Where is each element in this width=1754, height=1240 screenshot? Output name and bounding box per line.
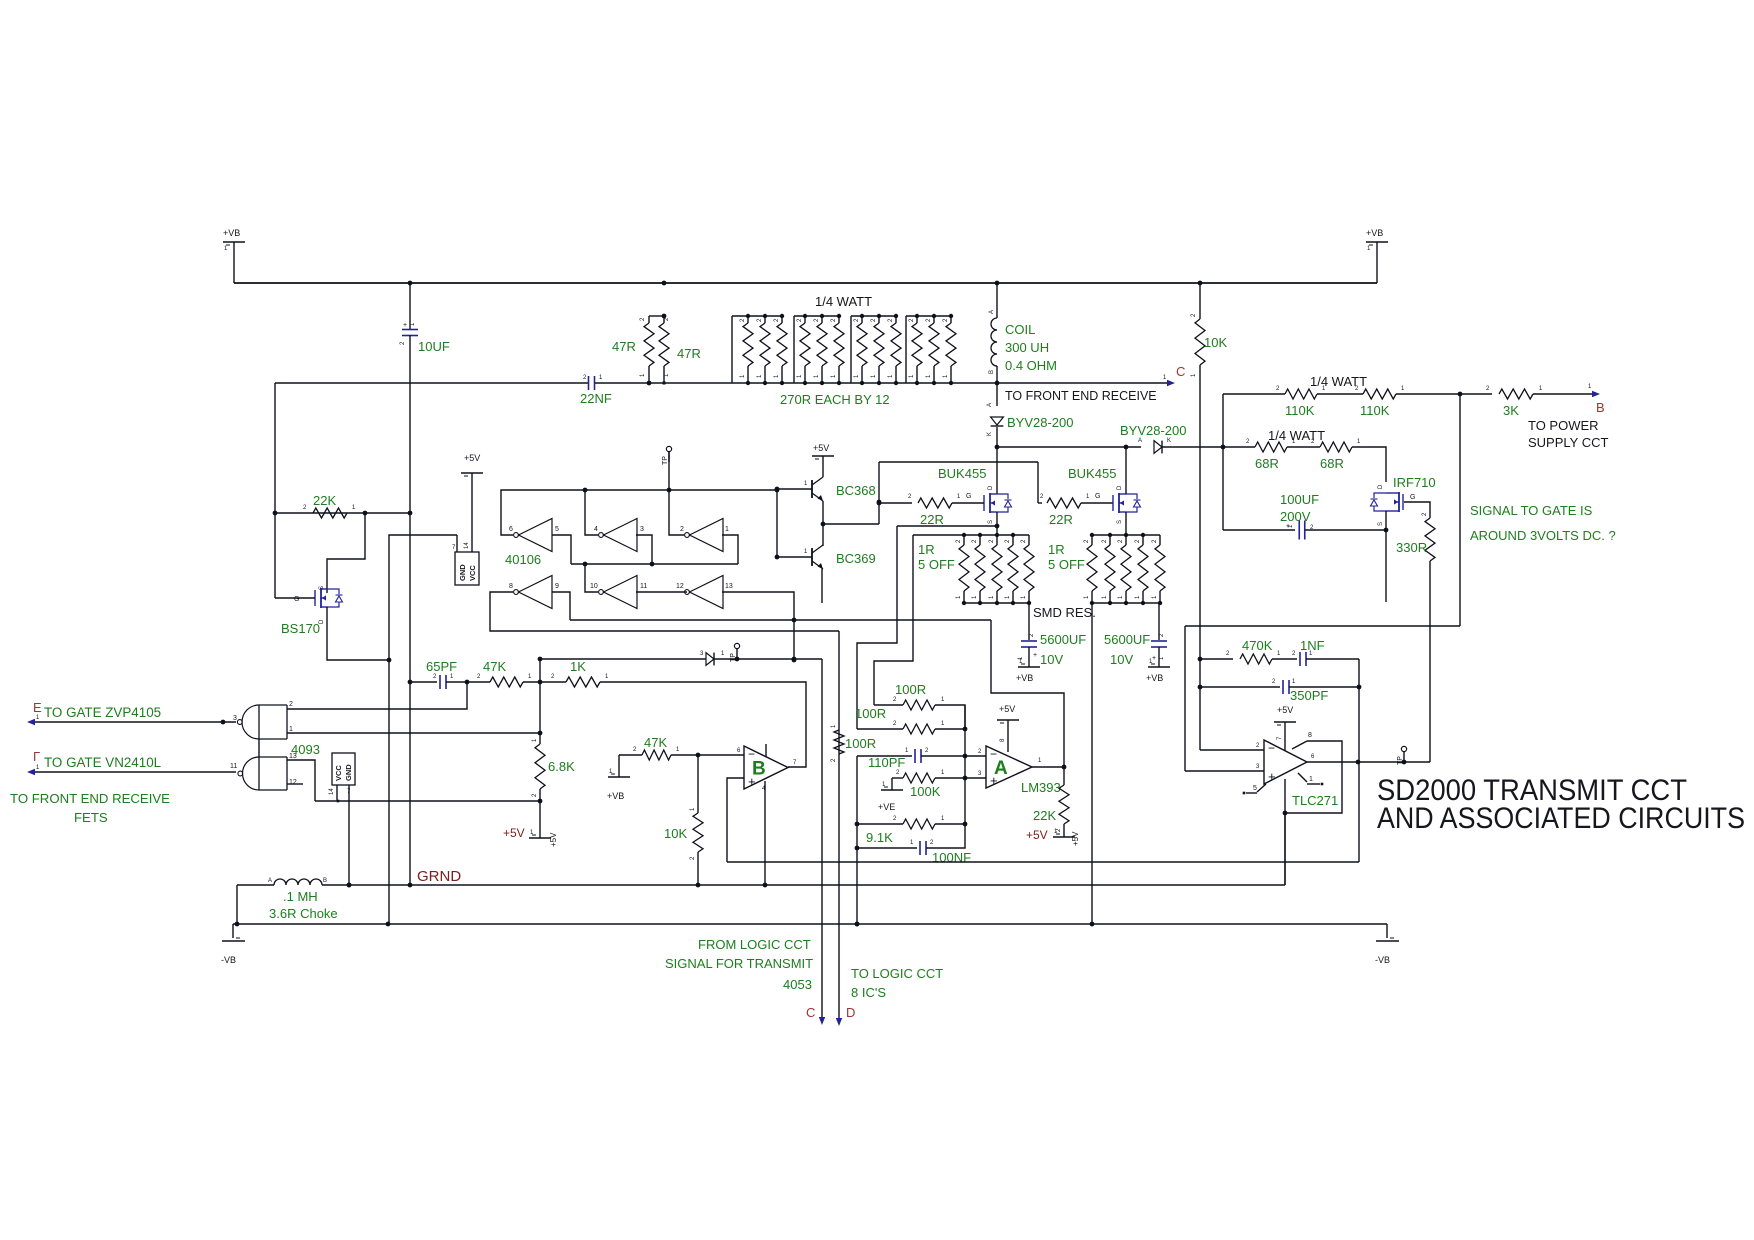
wire BUK455#1 source to bank <box>996 512 998 535</box>
svg-text:100R: 100R <box>855 706 886 721</box>
wire diode line y659 right <box>714 657 822 662</box>
junction dots on 10K line <box>1198 657 1203 690</box>
label COIL 300 UH 0.4 OHM <box>1005 322 1057 373</box>
wire bank2 col1 down to -VB rail <box>1091 603 1093 924</box>
wire bank1-top to 100R#1 <box>874 535 913 705</box>
resistor R 47R #1 <box>640 316 654 383</box>
wire to 47K#2 <box>619 747 642 755</box>
wire 22R#2 to gate <box>1081 502 1113 504</box>
resistor 270R #11 <box>926 314 939 385</box>
wire inv8 output to line D <box>490 592 839 631</box>
label +5V rotated (6.8K) <box>549 832 558 847</box>
svg-text:TO FRONT END RECEIVE: TO FRONT END RECEIVE <box>10 791 170 806</box>
svg-text:1K: 1K <box>570 659 586 674</box>
wire to 65PF <box>410 674 437 682</box>
inverter 40106 6-5 <box>514 519 552 552</box>
capacitor 5600UF #1 <box>1018 603 1037 660</box>
svg-text:IRF710: IRF710 <box>1393 475 1436 490</box>
resistor 330R <box>1425 518 1435 561</box>
svg-text:10K: 10K <box>664 826 687 841</box>
wire 1R bank1 bottom bus <box>964 602 1029 604</box>
resistor 270R #12 <box>943 314 956 385</box>
label BUK455 #2 <box>1068 466 1116 481</box>
label 1R 5 OFF #1 <box>918 542 955 572</box>
svg-text:5 OFF: 5 OFF <box>1048 557 1085 572</box>
label 330R <box>1396 540 1427 555</box>
label 1/4 WATT (110K) <box>1310 374 1367 389</box>
svg-text:5: 5 <box>555 526 559 533</box>
op-amp U TLC271 <box>1264 740 1307 784</box>
resistor 1R bank2 #5 <box>1152 535 1165 605</box>
wire gate-drive horizontal y462 <box>879 461 1038 463</box>
wire node540 vertical <box>538 657 543 736</box>
svg-text:22R: 22R <box>1049 512 1073 527</box>
svg-text:+VE: +VE <box>878 802 895 812</box>
wire 22R#1 left <box>877 494 912 505</box>
resistor 100R (vertical on D line) <box>831 724 844 762</box>
svg-text:LM393: LM393 <box>1021 780 1061 795</box>
resistor 1R bank2 #4 <box>1135 535 1148 605</box>
svg-text:+: + <box>403 322 407 329</box>
svg-text:+: + <box>1152 655 1156 662</box>
power +VE <box>878 778 903 812</box>
label +5V maroon (22K) <box>1026 828 1048 842</box>
resistor 47K #1 <box>490 674 532 687</box>
svg-text:22R: 22R <box>920 512 944 527</box>
net D bottom <box>846 1005 855 1020</box>
label 1/4 WATT (270R bank) <box>815 294 872 309</box>
svg-text:1: 1 <box>1309 776 1313 783</box>
svg-text:A: A <box>1138 438 1142 444</box>
inductor .1MH choke <box>237 878 327 885</box>
pins 2 1 <box>680 526 729 533</box>
svg-text:S: S <box>1378 522 1384 526</box>
wire BC369 emitter stub <box>821 569 823 603</box>
wire 3K to net B arrow <box>1533 384 1600 397</box>
junction dots y490 <box>583 488 780 493</box>
label BYV28-200 #2 <box>1120 423 1187 438</box>
wire diode2 line to BUK455#2 drain <box>1125 447 1127 494</box>
wire 100R#1 left <box>874 697 903 705</box>
wire 100R#2 left <box>857 721 903 729</box>
svg-text:G: G <box>1410 494 1415 501</box>
label TO FRONT END RECEIVE <box>1005 389 1157 403</box>
resistor 47K #2 <box>642 747 680 760</box>
pins 10 11 <box>590 583 647 590</box>
wire 22NF to 270R bank <box>595 382 732 384</box>
svg-text:1R: 1R <box>1048 542 1065 557</box>
wire inv9 input drop <box>552 592 570 620</box>
wire diode1 to BUK455 drain <box>995 427 1000 494</box>
svg-text:-VB: -VB <box>1375 955 1390 965</box>
svg-text:FETS: FETS <box>74 810 108 825</box>
wire TLC271 pin8 wrap <box>1285 732 1342 813</box>
label 1K <box>570 659 586 674</box>
wire 22R#1 to gate <box>952 502 984 504</box>
svg-text:5: 5 <box>1253 785 1257 792</box>
resistor 1R bank1 #2 <box>972 535 985 605</box>
svg-text:110PF: 110PF <box>868 755 905 770</box>
svg-text:SIGNAL FOR TRANSMIT: SIGNAL FOR TRANSMIT <box>665 956 813 971</box>
label BUK455 #1 <box>938 466 986 481</box>
resistor 10K (op-amp B) <box>690 755 703 885</box>
op-amp B pins <box>762 760 797 792</box>
inverter 40106 12-13 <box>685 576 723 609</box>
resistor 470K <box>1240 651 1281 664</box>
wire node to 3K <box>1460 386 1492 394</box>
svg-text:G: G <box>294 596 299 603</box>
label +5V maroon (6.8K) <box>503 826 525 840</box>
svg-text:3.6R Choke: 3.6R Choke <box>269 906 338 921</box>
wire 270R group 3 top bus <box>851 315 896 317</box>
wire LM393 output <box>1032 758 1066 769</box>
svg-text:68R: 68R <box>1320 456 1344 471</box>
svg-text:D: D <box>1378 484 1384 489</box>
label LM393 <box>1021 780 1061 795</box>
svg-text:COIL: COIL <box>1005 322 1035 337</box>
svg-text:14: 14 <box>329 788 335 795</box>
resistor 1K <box>566 674 609 687</box>
wire TLC271 pin3 <box>1185 764 1264 771</box>
nand B pins <box>230 753 297 786</box>
svg-text:100R: 100R <box>845 736 876 751</box>
title SD2000 TRANSMIT CCT <box>1377 774 1745 835</box>
resistor 270R #9 <box>888 314 901 385</box>
svg-text:+: + <box>1268 769 1276 784</box>
svg-text:22K: 22K <box>313 493 336 508</box>
resistor 9.1K <box>903 816 945 829</box>
resistor 100K <box>903 770 945 783</box>
label 10UF <box>418 339 450 354</box>
wire 110PF to pin2 <box>921 749 986 758</box>
label 1NF <box>1300 638 1325 653</box>
svg-text:3: 3 <box>640 526 644 533</box>
wire 270R group 4 top bus <box>906 315 953 317</box>
svg-text:+VB: +VB <box>1366 228 1383 238</box>
svg-text:S: S <box>988 520 994 524</box>
label 47K #1 <box>483 659 506 674</box>
label 100UF 200V <box>1280 492 1319 524</box>
svg-text:TO POWER: TO POWER <box>1528 418 1599 433</box>
svg-text:+: + <box>1033 652 1037 659</box>
svg-text:4093: 4093 <box>291 742 320 757</box>
power +VB (47K) <box>607 755 630 801</box>
label 5600UF 10V #1 <box>1040 632 1086 667</box>
resistor 22K <box>313 508 347 518</box>
wire line A y620 <box>570 618 991 623</box>
wire BS170 gate <box>275 597 315 599</box>
label 68R #1 <box>1255 456 1279 471</box>
label 4093 <box>291 742 320 757</box>
wire TLC271 pin1 stub <box>1298 773 1323 785</box>
wire BC368 emitter to node <box>821 501 826 526</box>
wire inv6 output to y490 net <box>501 490 777 535</box>
wire 4093 pin14 drop <box>336 785 338 801</box>
wire op-amp B pin5 drop <box>727 778 744 862</box>
svg-text:A: A <box>268 878 272 884</box>
svg-text:10UF: 10UF <box>418 339 450 354</box>
wire IRF710 gate to 330R <box>1404 502 1430 518</box>
diode (to TP) <box>706 651 725 665</box>
power +VB (5600UF #1) <box>1016 647 1040 683</box>
resistor 270R #8 <box>871 314 884 385</box>
svg-text:68R: 68R <box>1255 456 1279 471</box>
pins 12 13 <box>676 583 733 590</box>
svg-text:VCC: VCC <box>334 765 343 781</box>
svg-text:A: A <box>989 310 995 314</box>
wire 4093 pin7 to GRND <box>347 785 352 887</box>
test point TP (diode) <box>730 643 740 662</box>
svg-text:9: 9 <box>555 583 559 590</box>
svg-text:K: K <box>1167 438 1171 444</box>
net GRND <box>417 868 461 885</box>
wire 4093 pin1 line y733 <box>287 732 540 734</box>
svg-text:3: 3 <box>233 715 237 722</box>
wire 22R#2 left <box>1038 494 1044 503</box>
junction dots bottom rail <box>386 922 1095 927</box>
wire GRND line <box>322 884 1285 886</box>
svg-text:+5V: +5V <box>464 453 480 463</box>
label BYV28-200 #1 <box>1007 415 1074 430</box>
wire 22NF row left <box>275 382 588 384</box>
svg-text:8: 8 <box>509 583 513 590</box>
wire 270R group 1 top bus <box>732 315 783 317</box>
wire 330R down to TLC271 output <box>1429 561 1431 762</box>
capacitor 100NF <box>920 840 934 855</box>
label 350PF <box>1290 688 1328 703</box>
resistor 10K (top right) <box>1191 283 1205 377</box>
resistor 270R #1 <box>740 314 753 385</box>
wire 110K/68R left vertical <box>1222 394 1224 530</box>
label TO LOGIC CCT <box>851 966 943 981</box>
resistor 110K #2 <box>1363 386 1405 399</box>
wire 9.1K left <box>855 816 903 826</box>
wire BC368 base <box>777 488 812 490</box>
label 110K #1 <box>1285 403 1315 418</box>
svg-text:C: C <box>806 1005 815 1020</box>
svg-text:11: 11 <box>230 763 237 770</box>
junction dots 47R bottoms <box>647 381 666 386</box>
svg-text:47R: 47R <box>677 346 701 361</box>
label 1/4 WATT (68R) <box>1268 428 1325 443</box>
wire 1R bank1 top bus <box>913 533 1029 537</box>
junction dot 22R tap <box>877 500 882 505</box>
svg-text:4: 4 <box>594 526 598 533</box>
junction dots on 10UF line <box>408 511 413 685</box>
svg-text:11: 11 <box>640 583 647 590</box>
resistor 110K #1 <box>1285 386 1326 399</box>
svg-text:BS170: BS170 <box>281 621 320 636</box>
resistor 100R #1 <box>903 697 945 710</box>
power +5V bar (6.8K) <box>529 799 551 838</box>
wire 100K to pin3 <box>935 771 986 780</box>
inverter 40106 4-3 <box>599 519 637 552</box>
wire BC369 base <box>777 556 812 558</box>
svg-text:BYV28-200: BYV28-200 <box>1120 423 1187 438</box>
wire 100R#1 to bus <box>935 705 965 729</box>
wire y862 net to TLC271 bus <box>727 861 1359 863</box>
label 22K (LM393) <box>1033 808 1056 823</box>
wire 68R to IRF710 drain <box>1352 447 1386 482</box>
svg-text:8: 8 <box>1308 732 1312 739</box>
wire 65PF to 47K <box>446 680 469 685</box>
test point TP (inv2 output) <box>662 446 672 490</box>
label 1R 5 OFF #2 <box>1048 542 1085 572</box>
svg-text:TLC271: TLC271 <box>1292 793 1338 808</box>
wire BUK455#1 source tap <box>897 524 999 529</box>
wire feedback down to TLC271 pin3 <box>1184 626 1186 771</box>
label 40106 <box>505 552 541 567</box>
wire emitter node to gate-drive <box>823 523 879 525</box>
svg-text:22NF: 22NF <box>580 391 612 406</box>
svg-text:300 UH: 300 UH <box>1005 340 1049 355</box>
wire 9.1K/100NF left bus down to rail <box>855 756 860 926</box>
wire TLC271 pin2 <box>1200 743 1264 750</box>
svg-text:VCC: VCC <box>468 565 477 581</box>
svg-text:270R EACH BY 12: 270R EACH BY 12 <box>780 392 890 407</box>
svg-text:2: 2 <box>680 526 684 533</box>
wire 22K row <box>273 505 410 515</box>
inverter 40106 8-9 <box>514 576 552 609</box>
wire 47K to op-amp B pin6 <box>671 748 744 757</box>
wire 4093 pin13 tie <box>287 760 315 801</box>
svg-text:C: C <box>1176 364 1185 379</box>
wire 22K/BS170 gate vertical <box>274 383 276 598</box>
wire inv4 output riser <box>585 490 598 535</box>
svg-text:100NF: 100NF <box>932 850 971 865</box>
svg-text:BUK455: BUK455 <box>1068 466 1116 481</box>
svg-text:5600UF: 5600UF <box>1104 632 1150 647</box>
label IRF710 <box>1393 475 1436 490</box>
svg-text:+5V: +5V <box>1026 828 1048 842</box>
resistor 270R #4 <box>797 314 810 385</box>
label SIGNAL FOR TRANSMIT <box>665 956 813 971</box>
svg-text:10V: 10V <box>1110 652 1133 667</box>
label 22NF <box>580 391 612 406</box>
svg-text:G: G <box>966 493 971 500</box>
inductor COIL 300UH <box>989 310 997 374</box>
svg-text:47K: 47K <box>644 735 667 750</box>
wire TLC271 pin4 down to GRND <box>1283 779 1288 885</box>
label choke values <box>269 889 338 921</box>
svg-text:100K: 100K <box>910 784 941 799</box>
wire 10K down to TLC271 pin2 <box>1199 365 1201 750</box>
capacitor 100UF 200V <box>1286 521 1314 540</box>
svg-text:B: B <box>323 878 327 884</box>
transistor BUK455 #2 <box>1113 485 1141 524</box>
wire 100NF left <box>855 840 917 850</box>
capacitor 22NF <box>583 375 603 390</box>
svg-text:GND: GND <box>344 764 353 781</box>
wire 270R group 2 riser <box>793 316 795 383</box>
capacitor 350PF <box>1283 679 1296 694</box>
wire 22K to BS170 drain <box>327 513 365 593</box>
label 47K #2 <box>644 735 667 750</box>
wire inv13 input to diode net <box>722 592 796 662</box>
label 110PF <box>868 755 905 770</box>
svg-text:SMD RES.: SMD RES. <box>1033 605 1096 620</box>
svg-text:-VB: -VB <box>221 955 236 965</box>
wire to 47K#1 <box>467 674 490 682</box>
svg-text:D: D <box>1117 485 1123 490</box>
capacitor 110PF <box>915 748 929 763</box>
wire 1NF to right bus <box>1306 658 1359 660</box>
wire to 68R #1 <box>1223 439 1255 447</box>
label 9.1K <box>866 830 893 845</box>
svg-text:1/4 WATT: 1/4 WATT <box>1310 374 1367 389</box>
wire 110K #1 to #2 <box>1317 386 1363 394</box>
label 100K <box>910 784 941 799</box>
resistor R 47R #2 <box>659 316 670 383</box>
svg-text:13: 13 <box>725 583 733 590</box>
wire inv11 to inv12 <box>636 591 687 593</box>
wire 110PF left <box>857 748 912 756</box>
wire feedback horizontal y626 <box>1185 625 1460 627</box>
label TO GATE VN2410L <box>44 755 161 770</box>
resistor 22R #1 <box>918 493 971 508</box>
net C <box>1176 364 1185 379</box>
resistor 1R bank1 #3 <box>989 535 1002 605</box>
resistor 1R bank2 #2 <box>1102 535 1115 605</box>
wire 40106 GND down to -VB rail <box>389 535 457 924</box>
svg-text:+VB: +VB <box>223 228 240 238</box>
resistor 270R #6 <box>831 314 844 385</box>
svg-text:+VB: +VB <box>1146 673 1163 683</box>
svg-text:S: S <box>319 586 325 590</box>
power -VB right <box>1375 924 1399 965</box>
wire to 350PF <box>1200 679 1280 687</box>
label 68R #2 <box>1320 456 1344 471</box>
IC 40106 power box GND VCC <box>452 542 479 585</box>
nand A pins <box>233 701 293 733</box>
transistor BS170 <box>294 586 343 624</box>
wire coil to diode <box>995 366 1000 406</box>
svg-text:BC368: BC368 <box>836 483 876 498</box>
label SMD RES. <box>1033 605 1096 620</box>
wire BUK#1-source to 100R#2 <box>857 526 897 729</box>
junction dot IRF710 source / 100UF <box>1384 528 1389 533</box>
label 100NF <box>932 850 971 865</box>
power +VB right <box>1366 228 1388 283</box>
net B <box>1596 400 1605 415</box>
label TO GATE ZVP4105 <box>44 705 161 720</box>
svg-text:BUK455: BUK455 <box>938 466 986 481</box>
svg-text:65PF: 65PF <box>426 659 457 674</box>
label TO FRONT END RECEIVE FETS <box>10 791 170 806</box>
svg-text:+5V: +5V <box>999 704 1015 714</box>
wire 47R top bus <box>649 314 666 319</box>
svg-text:AROUND 3VOLTS DC. ?: AROUND 3VOLTS DC. ? <box>1470 528 1616 543</box>
svg-text:10V: 10V <box>1040 652 1063 667</box>
svg-text:12: 12 <box>676 583 684 590</box>
wire 4093 pin12 stub <box>287 783 303 785</box>
svg-text:4053: 4053 <box>783 977 812 992</box>
svg-text:3K: 3K <box>1503 403 1519 418</box>
resistor 22K (LM393) <box>1056 767 1069 832</box>
wire inv5 input drop <box>552 535 571 564</box>
transistor BUK455 #1 <box>984 485 1012 524</box>
capacitor C 10UF <box>400 283 418 345</box>
svg-text:9.1K: 9.1K <box>866 830 893 845</box>
wire 1R bank2 bottom bus <box>1092 602 1160 604</box>
label 47R #1 <box>612 339 636 354</box>
label FROM LOGIC CCT <box>698 937 811 952</box>
pins 6 5 <box>509 526 559 533</box>
svg-text:1/4 WATT: 1/4 WATT <box>815 294 872 309</box>
svg-text:0.4 OHM: 0.4 OHM <box>1005 358 1057 373</box>
label 10K (op-amp B) <box>664 826 687 841</box>
op-amp A LM393 <box>986 746 1032 788</box>
